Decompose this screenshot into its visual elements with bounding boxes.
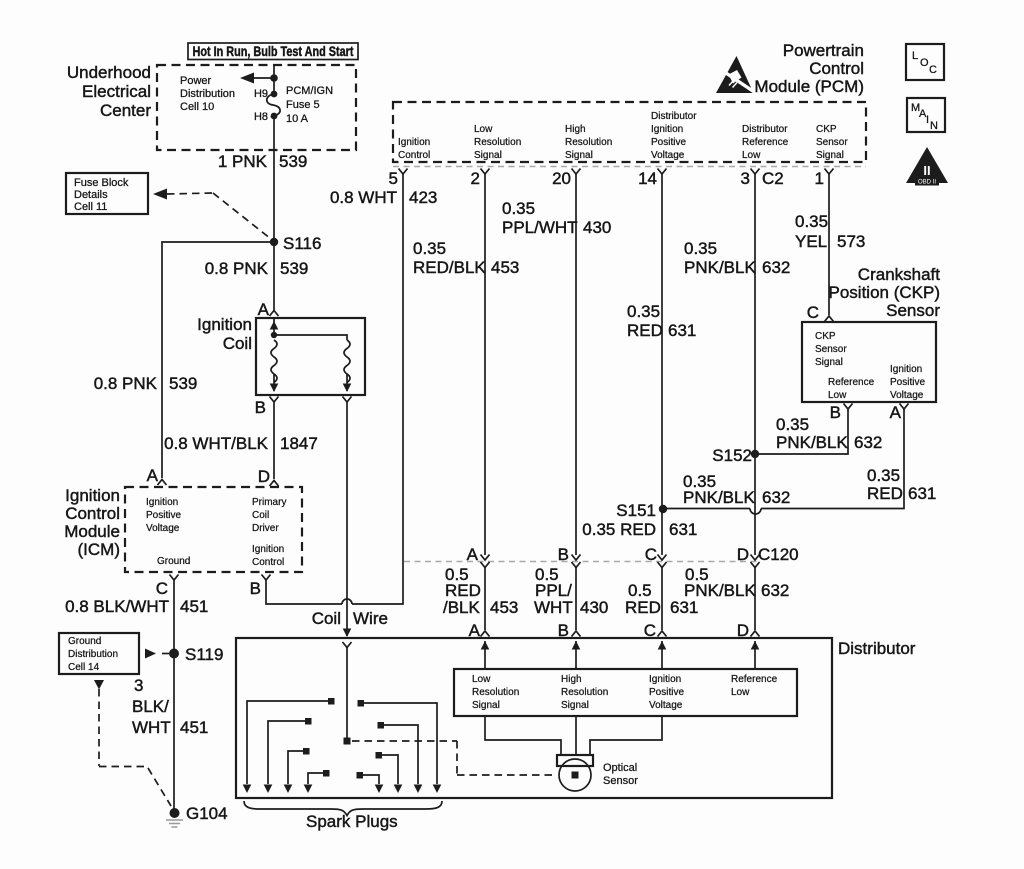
svg-text:Coil: Coil	[223, 334, 252, 353]
symbol MAIN	[907, 98, 945, 132]
symbol OBD II triangle	[906, 147, 948, 186]
wire label 0.5 PPL/WHT 430	[534, 565, 608, 617]
svg-text:D: D	[737, 545, 749, 564]
optical sensor	[557, 755, 593, 791]
svg-text:Distributor: Distributor	[838, 639, 916, 658]
svg-text:0.35: 0.35	[684, 239, 717, 258]
svg-text:A: A	[890, 403, 902, 422]
symbol LOC	[906, 44, 944, 80]
wire label 0.35 YEL 573	[795, 212, 865, 251]
svg-text:Low: Low	[474, 124, 493, 135]
svg-text:PCM/IGN: PCM/IGN	[286, 85, 333, 97]
svg-text:632: 632	[762, 488, 790, 507]
svg-text:20: 20	[552, 169, 571, 188]
connector C120 (dashed line)	[404, 545, 799, 564]
svg-text:Positive: Positive	[649, 687, 684, 698]
svg-text:Positive: Positive	[890, 377, 925, 388]
svg-text:Power: Power	[180, 75, 212, 87]
svg-text:Signal: Signal	[561, 700, 589, 711]
svg-text:Spark Plugs: Spark Plugs	[306, 812, 398, 831]
C120 crossing wire C	[658, 555, 667, 637]
svg-text:Control: Control	[65, 504, 120, 523]
label Powertrain Control Module (PCM)	[754, 41, 864, 96]
ESD warning symbol	[716, 56, 755, 93]
svg-text:Powertrain: Powertrain	[783, 41, 864, 60]
svg-text:WHT: WHT	[534, 598, 573, 617]
wire connector B to optical sensor	[575, 716, 577, 755]
spark plug wire 5	[357, 772, 384, 793]
svg-text:RED: RED	[625, 598, 661, 617]
svg-text:Resolution: Resolution	[565, 137, 612, 148]
svg-text:0.35: 0.35	[413, 239, 446, 258]
spark plug wire 4	[304, 770, 330, 793]
distributor pin label High Resolution Signal	[561, 674, 608, 711]
svg-text:WHT: WHT	[132, 718, 171, 737]
svg-text:Sensor: Sensor	[815, 344, 847, 355]
wire label 0.8 PNK 539	[205, 259, 309, 278]
svg-text:A: A	[467, 545, 479, 564]
svg-text:631: 631	[670, 598, 698, 617]
svg-text:Cell 10: Cell 10	[180, 101, 214, 113]
ignition coil internals: primary winding	[270, 318, 279, 392]
svg-text:0.35: 0.35	[776, 415, 809, 434]
svg-text:L: L	[912, 50, 918, 62]
svg-text:Distributor: Distributor	[742, 124, 788, 135]
svg-text:Cell 14: Cell 14	[68, 662, 100, 673]
svg-text:Sensor: Sensor	[603, 775, 638, 787]
svg-text:Ground: Ground	[68, 636, 101, 647]
svg-text:PNK/BLK: PNK/BLK	[683, 488, 755, 507]
wire connector C to optical sensor	[590, 716, 662, 755]
svg-text:Ignition: Ignition	[398, 137, 430, 148]
svg-text:Coil: Coil	[312, 609, 341, 628]
distributor connector box	[454, 669, 797, 716]
distributor wire C ignition positive voltage	[658, 641, 667, 669]
svg-text:C: C	[807, 303, 819, 322]
dashed reference arrow to Fuse Block Details	[153, 189, 271, 240]
svg-text:Low: Low	[828, 390, 847, 401]
wire label 0.35 RED 631 (CKP A)	[867, 466, 936, 503]
svg-text:Module: Module	[64, 522, 120, 541]
svg-text:539: 539	[280, 259, 308, 278]
svg-text:Ground: Ground	[157, 556, 190, 567]
svg-text:Reference: Reference	[742, 137, 789, 148]
svg-text:Signal: Signal	[815, 357, 843, 368]
CKP sensor box	[802, 322, 936, 402]
svg-text:S151: S151	[616, 501, 656, 520]
svg-text:Control: Control	[398, 150, 430, 161]
wire label 0.35 PPL/WHT 430	[502, 199, 611, 237]
svg-text:Cell 11: Cell 11	[74, 201, 107, 213]
PCM pin label Ignition Control	[398, 137, 430, 161]
svg-text:631: 631	[668, 321, 696, 340]
svg-text:Low: Low	[742, 150, 761, 161]
svg-text:632: 632	[854, 433, 882, 452]
CKP pin label CKP Sensor Signal	[815, 331, 847, 368]
C120 crossing wire A	[481, 555, 490, 637]
wire label 0.8 WHT 423	[330, 188, 437, 207]
svg-text:453: 453	[491, 258, 519, 277]
svg-text:Primary: Primary	[252, 497, 286, 508]
svg-text:0.8 BLK/WHT: 0.8 BLK/WHT	[65, 597, 169, 616]
svg-text:N: N	[930, 120, 938, 132]
svg-text:Ignition: Ignition	[146, 497, 178, 508]
wire label 1 PNK 539	[218, 152, 308, 171]
svg-text:S152: S152	[712, 446, 752, 465]
svg-text:Hot In Run, Bulb Test And Star: Hot In Run, Bulb Test And Start	[193, 44, 354, 59]
wire PCM 14 distributor ignition positive voltage	[658, 169, 667, 556]
svg-text:1 PNK: 1 PNK	[218, 152, 268, 171]
svg-text:Positive: Positive	[651, 137, 686, 148]
wire from box top to fuse	[273, 65, 275, 94]
svg-text:I: I	[926, 114, 929, 126]
wire label 0.8 WHT/BLK 1847	[164, 434, 318, 453]
svg-text:H8: H8	[254, 111, 268, 123]
arrow branch to Power Distribution	[240, 73, 278, 84]
wire label 0.5 RED/BLK 453	[443, 565, 518, 617]
svg-text:High: High	[565, 124, 586, 135]
distributor wire D reference low	[751, 641, 760, 669]
svg-text:632: 632	[762, 258, 790, 277]
spark plug wire 3	[284, 748, 310, 793]
svg-text:Details: Details	[74, 189, 108, 201]
fuse F5 symbol	[267, 91, 280, 120]
svg-text:/BLK: /BLK	[443, 598, 481, 617]
label PCM/IGN Fuse 5 10 A	[286, 85, 333, 125]
distributor box	[236, 638, 916, 798]
dashed ground reference path	[94, 680, 171, 806]
ICM pin label Ignition Positive Voltage	[146, 497, 181, 534]
svg-text:OBD II: OBD II	[918, 180, 936, 186]
svg-text:631: 631	[908, 484, 936, 503]
svg-text:C2: C2	[762, 169, 784, 188]
svg-text:Ignition: Ignition	[65, 486, 120, 505]
svg-text:Resolution: Resolution	[561, 687, 608, 698]
svg-text:3: 3	[134, 676, 143, 695]
spark plug wire 2	[264, 718, 312, 793]
wire label 0.8 PNK 539 (left)	[94, 374, 198, 393]
label Power Distribution Cell 10	[180, 75, 235, 113]
svg-text:430: 430	[583, 218, 611, 237]
node S116	[270, 234, 322, 253]
svg-text:539: 539	[279, 152, 307, 171]
svg-text:451: 451	[180, 718, 208, 737]
wire label 0.35 RED 631	[627, 302, 696, 340]
svg-text:631: 631	[669, 520, 697, 539]
PCM pin label Distributor Ignition Positive Voltage	[651, 111, 697, 161]
svg-text:0.35 RED: 0.35 RED	[582, 520, 656, 539]
svg-text:Fuse Block: Fuse Block	[74, 177, 129, 189]
label Fuse Block Details Cell 11	[66, 173, 148, 214]
ICM box (dashed)	[125, 487, 302, 572]
ground G104	[166, 804, 228, 827]
wire label 0.35 RED/BLK 453	[413, 239, 519, 277]
svg-text:0.35: 0.35	[795, 212, 828, 231]
wire S116 down to coil (0.8 PNK 539)	[270, 242, 279, 316]
wire CKP A ignition positive voltage to S151	[663, 404, 909, 515]
svg-text:423: 423	[409, 188, 437, 207]
svg-text:539: 539	[169, 374, 197, 393]
svg-text:CKP: CKP	[815, 331, 836, 342]
svg-text:Control: Control	[809, 59, 864, 78]
svg-text:Underhood: Underhood	[67, 63, 151, 82]
distributor wire B high resolution signal	[572, 641, 581, 669]
Underhood Electrical Center box (dashed)	[157, 65, 356, 150]
wire CKP B reference low to S152	[755, 404, 853, 455]
svg-text:1847: 1847	[280, 434, 318, 453]
svg-text:2: 2	[471, 169, 480, 188]
wire label 3 BLK/WHT 451	[132, 676, 208, 737]
svg-text:0.35: 0.35	[502, 199, 535, 218]
svg-text:Low: Low	[472, 674, 491, 685]
svg-text:Center: Center	[100, 101, 151, 120]
wire PCM 1 CKP sensor signal	[825, 169, 834, 322]
wire PCM 3 distributor reference low	[751, 169, 760, 556]
svg-text:Distributor: Distributor	[651, 111, 697, 122]
wire PCM 20 high resolution signal	[572, 169, 581, 556]
svg-text:PNK/BLK: PNK/BLK	[684, 581, 756, 600]
wire fuse to S116 (1 PNK 539)	[273, 116, 275, 242]
ignition coil U1 box	[256, 318, 365, 395]
svg-text:S116: S116	[283, 234, 321, 253]
svg-text:Electrical: Electrical	[82, 82, 151, 101]
svg-text:CKP: CKP	[816, 124, 837, 135]
svg-text:Signal: Signal	[472, 700, 500, 711]
svg-text:Position (CKP): Position (CKP)	[829, 283, 940, 302]
svg-text:C120: C120	[758, 545, 799, 564]
svg-text:D: D	[258, 467, 270, 486]
svg-text:Ignition: Ignition	[197, 315, 252, 334]
svg-text:Ignition: Ignition	[890, 364, 922, 375]
ICM pin label Primary Coil Driver	[252, 497, 286, 534]
label Ignition Coil	[197, 315, 252, 353]
coil wire center terminal	[344, 738, 351, 745]
spark plug wire 7	[378, 722, 423, 793]
wire label 0.35 PNK/BLK 632 (below S152)	[683, 472, 790, 507]
svg-text:Driver: Driver	[252, 523, 279, 534]
svg-text:0.35: 0.35	[627, 302, 660, 321]
svg-text:A: A	[147, 466, 159, 485]
svg-text:B: B	[255, 398, 266, 417]
svg-text:Signal: Signal	[816, 150, 844, 161]
svg-text:S119: S119	[185, 645, 223, 664]
svg-text:High: High	[561, 674, 582, 685]
svg-text:Voltage: Voltage	[146, 523, 180, 534]
label Optical Sensor	[603, 762, 638, 787]
C120 crossing wire D	[751, 555, 760, 637]
svg-text:PPL/WHT: PPL/WHT	[502, 218, 578, 237]
svg-text:Ignition: Ignition	[651, 124, 683, 135]
distributor pin label Ignition Positive Voltage	[649, 674, 684, 711]
svg-text:Resolution: Resolution	[472, 687, 519, 698]
node S151	[616, 501, 667, 520]
svg-text:B: B	[830, 403, 841, 422]
svg-text:RED: RED	[867, 484, 903, 503]
svg-text:A: A	[258, 300, 270, 319]
spark plugs brace	[244, 801, 442, 816]
svg-text:Coil: Coil	[252, 510, 269, 521]
svg-text:0.8 PNK: 0.8 PNK	[205, 259, 269, 278]
svg-text:5: 5	[389, 169, 398, 188]
PCM pin label Distributor Reference Low	[742, 124, 789, 161]
label Coil Wire	[312, 609, 388, 628]
svg-text:0.8 WHT/BLK: 0.8 WHT/BLK	[164, 434, 269, 453]
distributor pin label Low Resolution Signal	[472, 674, 519, 711]
svg-text:Positive: Positive	[146, 510, 181, 521]
svg-text:C: C	[645, 545, 657, 564]
wire connector A to optical sensor	[485, 716, 561, 755]
wire label 0.5 PNK/BLK 632	[684, 565, 789, 600]
svg-text:0.8 WHT: 0.8 WHT	[330, 188, 397, 207]
svg-text:YEL: YEL	[795, 232, 827, 251]
coil wire from secondary to distributor	[343, 397, 352, 638]
svg-text:Crankshaft: Crankshaft	[858, 265, 940, 284]
wire S116 branch left	[158, 242, 275, 485]
svg-text:Module (PCM): Module (PCM)	[754, 77, 864, 96]
svg-text:Voltage: Voltage	[649, 700, 683, 711]
label Underhood Electrical Center	[67, 63, 151, 120]
svg-text:Signal: Signal	[474, 150, 502, 161]
reference arrow to S119	[145, 649, 169, 659]
svg-text:632: 632	[761, 581, 789, 600]
wire label 0.8 BLK/WHT 451	[65, 597, 208, 616]
svg-text:G104: G104	[186, 804, 228, 823]
svg-text:1: 1	[815, 169, 824, 188]
label Ignition Control Module (ICM)	[64, 486, 120, 559]
PCM pin label CKP Sensor Signal	[816, 124, 848, 161]
label Hot In Run, Bulb Test And Start	[188, 43, 358, 60]
svg-text:Reference: Reference	[828, 377, 875, 388]
svg-text:451: 451	[180, 597, 208, 616]
CKP pin label Reference Low	[828, 377, 875, 401]
svg-text:B: B	[558, 545, 569, 564]
svg-text:Low: Low	[731, 687, 750, 698]
svg-text:Distribution: Distribution	[180, 88, 235, 100]
wire label 0.35 PNK/BLK 632 (CKP B)	[776, 415, 882, 452]
ICM pin label Ignition Control	[252, 544, 284, 568]
svg-text:PNK/BLK: PNK/BLK	[684, 258, 756, 277]
svg-text:(ICM): (ICM)	[78, 540, 120, 559]
node S119	[169, 645, 223, 664]
ignition coil internals: secondary winding	[274, 335, 351, 392]
CKP pin label Ignition Positive Voltage	[890, 364, 925, 401]
svg-text:Voltage: Voltage	[890, 390, 924, 401]
wire label 0.5 RED 631	[625, 581, 698, 617]
svg-text:0.8 PNK: 0.8 PNK	[94, 374, 158, 393]
svg-text:453: 453	[490, 598, 518, 617]
dashed rotor link from coil terminal to optical sensor	[352, 741, 557, 775]
svg-text:Distribution: Distribution	[68, 649, 118, 660]
spark plug wire 6	[376, 752, 403, 793]
svg-text:14: 14	[638, 169, 657, 188]
svg-text:573: 573	[837, 232, 865, 251]
svg-text:Control: Control	[252, 557, 284, 568]
distributor pin label Reference Low	[731, 674, 778, 698]
svg-text:Resolution: Resolution	[474, 137, 521, 148]
wire label 0.35 RED 631 (below S151)	[582, 520, 697, 539]
wire ICM B ignition control to PCM pin 5	[262, 169, 408, 605]
PCM pin label High Resolution Signal	[565, 124, 612, 161]
svg-text:Reference: Reference	[731, 674, 778, 685]
svg-text:PNK/BLK: PNK/BLK	[776, 433, 848, 452]
svg-text:H9: H9	[254, 88, 268, 100]
svg-text:430: 430	[580, 598, 608, 617]
svg-text:Sensor: Sensor	[886, 301, 940, 320]
svg-text:Ignition: Ignition	[649, 674, 681, 685]
svg-text:Signal: Signal	[565, 150, 593, 161]
svg-text:O: O	[920, 57, 929, 69]
wire PCM 2 low resolution signal	[481, 169, 490, 556]
label Crankshaft Position (CKP) Sensor	[829, 265, 941, 320]
svg-text:B: B	[250, 579, 261, 598]
svg-text:RED: RED	[627, 321, 663, 340]
svg-text:BLK/: BLK/	[132, 697, 169, 716]
node S152	[712, 446, 759, 465]
svg-text:Wire: Wire	[353, 609, 388, 628]
svg-text:C: C	[156, 579, 168, 598]
wire label 0.35 PNK/BLK 632	[684, 239, 790, 277]
svg-text:II: II	[923, 163, 930, 178]
svg-text:Ignition: Ignition	[252, 544, 284, 555]
coil wire entry fork inside distributor	[343, 642, 352, 740]
PCM connector box (dashed)	[393, 102, 866, 167]
svg-text:3: 3	[741, 169, 750, 188]
svg-text:10 A: 10 A	[286, 113, 309, 125]
wire coil B to ICM D (0.8 WHT/BLK 1847)	[270, 397, 279, 487]
svg-text:RED/BLK: RED/BLK	[413, 258, 486, 277]
wire ICM C ground (0.8 BLK/WHT 451)	[170, 575, 179, 810]
distributor wire A low resolution signal	[481, 641, 490, 669]
svg-text:Sensor: Sensor	[816, 137, 848, 148]
svg-text:Fuse 5: Fuse 5	[286, 99, 320, 111]
label Ground Distribution Cell 14	[59, 633, 139, 674]
spark plug wire 8	[358, 700, 442, 793]
svg-text:C: C	[929, 64, 937, 76]
svg-text:Optical: Optical	[603, 762, 637, 774]
C120 crossing wire B	[572, 555, 581, 637]
PCM pin label Low Resolution Signal	[474, 124, 521, 161]
spark plug wire 1	[243, 698, 335, 793]
svg-text:0.35: 0.35	[867, 466, 900, 485]
svg-text:Voltage: Voltage	[651, 150, 685, 161]
